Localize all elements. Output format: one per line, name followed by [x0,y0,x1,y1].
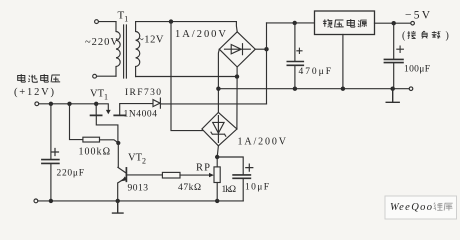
svg-text:220μF: 220μF [57,169,85,179]
wire regulator common lead [342,35,344,89]
svg-text:470μF: 470μF [299,67,332,77]
svg-text:IRF730: IRF730 [125,88,161,98]
capacitor C2 100uF plates [384,59,403,62]
wire +12V rail [39,103,96,105]
capacitor C1 plus sign [297,48,302,53]
wire VT1 gate path [96,115,118,142]
wire DC- rail [218,88,409,90]
junction VT1 gate node [116,141,120,145]
potentiometer RP wiper arrow [209,173,214,177]
svg-text:−5V: −5V [405,10,431,22]
svg-text:10μF: 10μF [245,183,269,193]
wire B1 DC+ to node [255,48,266,50]
transformer T1 primary winding [116,22,120,77]
terminal primary top [95,20,99,24]
resistor R1 100k leads [70,104,119,143]
junction AC bottom node [235,74,239,78]
svg-text:9013: 9013 [128,184,149,194]
watermark box [385,196,457,219]
wire DC+ vertical [266,23,268,104]
capacitor C3 10uF plates [233,175,250,178]
diode VD1 1N4004 [153,98,160,108]
transformer T1 core [124,25,127,78]
svg-text:1kΩ: 1kΩ [222,185,237,195]
svg-text:100μF: 100μF [404,65,430,75]
bridge B1 inner diode [225,44,251,55]
junction regulator common node [341,87,345,91]
wire ground rail bottom [38,200,243,202]
junction VT1 source node [94,102,98,106]
svg-text:(+12V): (+12V) [14,87,55,98]
ground symbol right [386,89,399,103]
junction 470uF bottom node [293,87,297,91]
capacitor C1 470uF plates [287,62,303,66]
junction 470uF top node [293,21,297,25]
bridge rectifier B1 1A/200V [219,32,255,67]
wire C3 bottom lead [242,179,244,201]
wire RP top lead [216,157,218,167]
svg-text:100kΩ: 100kΩ [79,147,111,158]
wire DC+ top rail to regulator [267,22,315,24]
svg-text:1A/200V: 1A/200V [238,137,287,148]
svg-text:~220V: ~220V [85,37,118,48]
svg-text:VT1: VT1 [90,89,108,102]
wire diode output to DC+ [160,103,266,105]
svg-text:RP: RP [196,163,210,174]
junction 100k top [67,102,71,106]
resistor R1 100k body [83,137,100,142]
svg-text:): ) [446,31,449,42]
potentiometer RP body 1k [214,167,220,183]
wire B2 bottom to RP node [217,146,218,157]
junction DC- node [216,87,220,91]
svg-text:T1: T1 [118,10,129,24]
terminal battery plus [35,102,39,106]
terminal battery minus [34,199,38,203]
ground symbol left [113,201,124,213]
wire regulator output [375,22,411,24]
capacitor C2 100uF leads [393,23,395,89]
wire 47k to RP wiper [180,174,209,176]
terminal -5V output [411,21,415,25]
terminal primary bottom [93,74,97,78]
junction RP top node [215,155,219,159]
junction output common node [391,87,395,91]
transformer T1 secondary winding [136,22,140,77]
wire B1 bottom vertical to bridge B2 right vertex [236,67,238,129]
wire primary top lead [99,21,116,23]
junction 220uF bottom [49,199,53,203]
wire RP node to C3 10uF [217,157,243,175]
bridge B2 inner zener diode [211,116,226,143]
capacitor C3 plus sign [246,164,253,171]
wire AC top rail [136,21,237,23]
label regulator 稳压电源 [323,19,367,27]
wire gate node to VT2 collector [117,143,119,167]
resistor R2 47k body [162,172,180,178]
junction secondary top node [169,19,173,23]
capacitor C4 220uF plates [42,160,59,164]
svg-text:VT2: VT2 [128,153,146,166]
wire RP bottom lead [216,183,218,201]
wire primary bottom lead [97,75,116,77]
capacitor C4 plus sign [52,149,59,156]
bridge rectifier B2 1A/200V [202,112,237,145]
svg-text:47kΩ: 47kΩ [178,183,201,193]
capacitor C2 plus sign [397,46,404,52]
regulator block box [315,11,375,35]
transistor VT2 9013 [118,167,163,201]
wire B1 AC input top [235,22,238,32]
junction RP bottom node [215,199,219,203]
capacitor C4 220uF leads [50,104,52,201]
watermark 维库 [434,203,453,211]
junction 100uF top node [392,21,396,25]
wire B1 DC- left vertex down [217,49,220,112]
junction 220uF top [49,102,53,106]
svg-text:~12V: ~12V [138,35,164,46]
svg-text:1N4004: 1N4004 [124,110,158,120]
svg-text:1A/200V: 1A/200V [175,29,226,40]
junction VT2 emitter node [116,199,120,203]
transistor VT1 IRF730 mosfet [96,104,153,115]
junction DC+ node [264,47,268,51]
capacitor C1 470uF leads [294,23,296,89]
svg-text:(: ( [402,31,406,42]
wire AC sense drop to bridge B2 [171,22,202,131]
wire AC bottom from secondary to bridge B1 [136,76,237,78]
label battery voltage [18,74,60,82]
terminal output common [409,87,413,91]
